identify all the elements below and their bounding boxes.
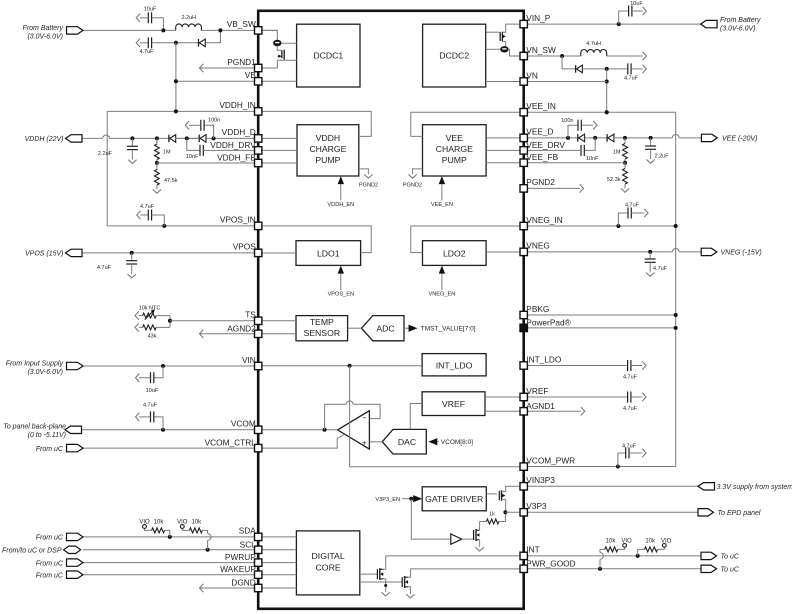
connector From uC (WAKEUP) [67, 571, 84, 578]
svg-text:TEMP: TEMP [310, 317, 334, 327]
svg-text:10nF: 10nF [586, 156, 599, 162]
svg-text:PGND2: PGND2 [403, 182, 422, 188]
svg-text:SDA: SDA [239, 526, 257, 536]
svg-text:2.2uH: 2.2uH [181, 15, 196, 21]
svg-text:From/to uC or DSP: From/to uC or DSP [2, 548, 62, 555]
svg-text:DIGITAL: DIGITAL [312, 551, 345, 561]
wire VN_SW node [524, 55, 581, 57]
svg-text:2.2uF: 2.2uF [98, 151, 113, 157]
svg-text:PWR_GOOD: PWR_GOOD [526, 558, 575, 568]
pin AGND2 [255, 330, 262, 337]
svg-text:10nF: 10nF [186, 154, 199, 160]
svg-text:PowerPad®: PowerPad® [526, 317, 570, 327]
svg-text:10uF: 10uF [146, 388, 159, 394]
svg-text:To panel back-plane: To panel back-plane [3, 424, 66, 431]
pin TS [255, 317, 262, 324]
wire VNEG to connector (hops rail) [524, 251, 673, 253]
wire VREF to DAC [410, 404, 422, 430]
pin VB_SW [255, 27, 262, 34]
block DAC [382, 429, 426, 454]
svg-text:VCOM_CTRL: VCOM_CTRL [205, 437, 257, 447]
wire VIN from input supply [83, 365, 258, 367]
svg-text:From Input Supply: From Input Supply [6, 361, 64, 368]
wire VNEG_IN internal loop to LDO2 [411, 226, 524, 253]
pin PWRUP [255, 559, 262, 566]
svg-text:INT_LDO: INT_LDO [436, 360, 473, 370]
wire VIN_P to From Battery (right) [524, 23, 701, 25]
svg-text:DCDC1: DCDC1 [313, 51, 343, 61]
wires host signals into DIGITAL CORE [258, 536, 296, 538]
capacitor 4.7uF (VCOM) [154, 417, 163, 430]
ground stub PGND2 (VEE charge pump) [413, 169, 423, 175]
wire VIN3P3 external [524, 485, 698, 487]
svg-text:100n: 100n [208, 118, 220, 124]
resistor 52.3k (VEE feedback) [624, 163, 626, 169]
wire VNEG to LDO2 [486, 251, 524, 253]
svg-text:VCOM_PWR: VCOM_PWR [526, 455, 575, 465]
svg-text:2.2uF: 2.2uF [655, 154, 670, 160]
wire VDDH_IN internal loop to VDDH charge pump [258, 111, 371, 136]
pullup resistor VIO 10k (SDA) [165, 530, 170, 537]
connector To panel back-plane [65, 426, 82, 433]
svg-text:AGND2: AGND2 [227, 323, 256, 333]
connector From Input Supply [67, 362, 84, 369]
svg-text:4.7uF: 4.7uF [625, 203, 640, 209]
wire PGND2 external [524, 187, 580, 189]
pin AGND1 [520, 408, 527, 415]
pin VN_SW [520, 52, 527, 59]
transistor Q4 (V3P3 pass FET) [486, 493, 497, 495]
pin VREF [520, 393, 527, 400]
pin VB [255, 78, 262, 85]
transistor Q2 (DCDC2 high-side FET) [506, 24, 524, 31]
capacitor 4.7uF (VPOS_IN) [137, 211, 141, 219]
svg-text:V3P3_EN: V3P3_EN [375, 497, 400, 503]
wires TS/AGND2 to TEMP SENSOR [258, 320, 296, 322]
wire SDA [83, 536, 258, 538]
pin VNEG_IN [520, 222, 527, 229]
inductor 4.7uH [581, 49, 607, 56]
svg-text:INT: INT [526, 545, 539, 555]
transistor Q1 (DCDC1 high-side FET) [258, 30, 277, 40]
svg-text:VNEG_EN: VNEG_EN [429, 292, 456, 298]
svg-text:4.7uF: 4.7uF [624, 76, 639, 82]
wire DAC to op-amp + input [369, 441, 382, 443]
svg-text:PUMP: PUMP [315, 155, 340, 165]
pin PWR_GOOD [520, 565, 527, 572]
svg-text:PBKG: PBKG [526, 304, 549, 314]
wire VNEG_IN [524, 225, 676, 227]
svg-text:10k: 10k [606, 539, 617, 545]
diode D5 (VEE) [577, 134, 579, 142]
capacitor 4.7uF (VPOS) [130, 251, 134, 255]
wire V3P3 [505, 511, 523, 513]
svg-text:VIN_P: VIN_P [526, 13, 550, 23]
wire AGND1 external arrow [524, 410, 581, 412]
svg-text:VNEG_IN: VNEG_IN [526, 215, 562, 225]
bus arrow VCOM[8:0] [428, 438, 437, 445]
resistor 47.5k (VDDH feedback) [156, 163, 158, 170]
right rail (VN net) [675, 112, 677, 466]
resistor 1M (VEE feedback) [623, 136, 627, 140]
capacitor 10nF (VEE_DRV) [593, 136, 597, 140]
svg-text:VN: VN [526, 70, 538, 80]
transistor Q6 (PWR_GOOD open-drain) [360, 581, 402, 583]
svg-text:PWRUP: PWRUP [225, 552, 256, 562]
pin VIN [255, 362, 262, 369]
svg-text:1M: 1M [163, 150, 171, 156]
capacitor 4.7uF (battery input) [136, 39, 140, 47]
svg-text:SENSOR: SENSOR [303, 328, 340, 338]
wire PBKG [524, 314, 676, 316]
svg-text:WAKEUP: WAKEUP [220, 564, 256, 574]
capacitor 10uF (VIN) [154, 366, 163, 378]
svg-text:(3.0V-6.0V): (3.0V-6.0V) [27, 34, 63, 41]
capacitor 4.7uF (VNEG) [648, 250, 652, 254]
diode D1 (VB_SW) [198, 39, 200, 47]
svg-text:VDDH_DRV: VDDH_DRV [210, 140, 256, 150]
enable arrow VPOS_EN [340, 272, 342, 291]
wire VEE_D output line [524, 137, 578, 139]
resistor 1M (VDDH feedback) [155, 136, 159, 140]
wire WAKEUP [83, 574, 258, 576]
svg-text:10k: 10k [645, 539, 656, 545]
svg-text:CHARGE: CHARGE [309, 144, 346, 154]
svg-text:DCDC2: DCDC2 [439, 51, 469, 61]
svg-text:100n: 100n [561, 118, 573, 124]
svg-text:1M: 1M [613, 150, 621, 156]
svg-text:To EPD panel: To EPD panel [718, 510, 761, 517]
wire VCOM_CTRL to op-amp [258, 434, 344, 448]
resistor 43k [135, 323, 139, 331]
svg-text:PGND2: PGND2 [359, 182, 378, 188]
wire VDDH_IN loop [107, 110, 258, 112]
svg-text:VPOS_IN: VPOS_IN [220, 215, 256, 225]
pullup resistor 10k VIO (INT) [638, 549, 645, 556]
wire TEMP SENSOR to ADC [348, 327, 362, 329]
wire VCOM_PWR to rail [524, 466, 676, 468]
wire DGND external arrow [200, 587, 259, 589]
inductor 2.2uH [176, 24, 202, 31]
wire PWRUP [83, 562, 258, 564]
svg-text:VEE_EN: VEE_EN [431, 202, 453, 208]
diode D6 (VEE) [606, 134, 608, 142]
connector To EPD panel [698, 509, 714, 516]
pin INT [520, 552, 527, 559]
svg-text:VIO: VIO [661, 539, 672, 545]
svg-text:VIO: VIO [621, 539, 632, 545]
capacitor 100n (VEE_D) [566, 136, 570, 140]
svg-text:4.7uF: 4.7uF [140, 204, 155, 210]
svg-text:VEE_FB: VEE_FB [526, 152, 558, 162]
feedback wire (VCOM to op-amp inverting input) [325, 404, 347, 430]
wire input rail down (node VB) [175, 43, 177, 112]
pin VEE_FB [520, 159, 527, 166]
wire INT_LDO output cap [524, 365, 628, 367]
wire VEE_FB [623, 161, 627, 165]
svg-text:10k NTC: 10k NTC [139, 306, 161, 312]
capacitor 4.7uF (VN rail) [605, 67, 609, 71]
svg-text:DGND: DGND [231, 578, 255, 588]
pin VEE_DRV [520, 147, 527, 154]
wire PGND1 (external, to ground arrow) [199, 67, 258, 69]
wire VEE_IN to right rail [524, 111, 676, 113]
pin PowerPad (thermal pad) [520, 324, 527, 331]
svg-text:VEE_D: VEE_D [526, 127, 553, 137]
svg-text:VNEG: VNEG [526, 241, 550, 251]
enable arrow VEE_EN [441, 182, 443, 201]
transistor Q3 (V3P3 pulldown) [462, 538, 474, 540]
wire TS [169, 316, 171, 328]
svg-text:VEE: VEE [446, 133, 464, 143]
svg-text:DAC: DAC [398, 437, 416, 447]
wire VDDH_FB [155, 161, 159, 165]
svg-text:LDO2: LDO2 [443, 248, 466, 258]
wires VEE_D/DRV/FB to charge pump [486, 137, 524, 139]
block LDO2 [423, 241, 487, 266]
op-amp U2 VCOM amplifier [338, 411, 370, 449]
capacitor 100n (VDDH_D) [212, 136, 216, 140]
svg-text:VEE_IN: VEE_IN [526, 101, 556, 111]
svg-text:VNEG (-15V): VNEG (-15V) [721, 250, 762, 257]
wire VIN rail down to VCOM_PWR [349, 366, 351, 467]
diode D2 (VN_SW) [562, 56, 576, 69]
svg-text:SCL: SCL [240, 539, 257, 549]
svg-text:(0 to -5.11V): (0 to -5.11V) [28, 432, 66, 439]
wire V3P3 external [524, 511, 698, 513]
block ADC [362, 316, 405, 341]
svg-text:VIN3P3: VIN3P3 [526, 475, 555, 485]
svg-text:VDDH_FB: VDDH_FB [217, 152, 256, 162]
svg-text:From uC: From uC [36, 446, 64, 453]
wire diode to VB_SW node [205, 30, 220, 42]
svg-text:47.5k: 47.5k [164, 178, 178, 184]
svg-text:TS: TS [245, 310, 256, 320]
pin VDDH_DRV [255, 147, 262, 154]
pin PGND2 [520, 185, 527, 192]
wire VCOM_PWR internal [350, 466, 524, 468]
wire VB [176, 80, 258, 82]
wire VPOS output [82, 252, 258, 254]
block DCDC2 [423, 24, 486, 87]
svg-text:4.7uF: 4.7uF [622, 444, 637, 450]
connector To uC (PWR_GOOD) [701, 565, 717, 572]
wire PWR_GOOD internal [410, 568, 523, 570]
svg-text:10uF: 10uF [630, 1, 643, 7]
pin VPOS_IN [255, 222, 262, 229]
svg-text:ADC: ADC [376, 323, 394, 333]
pin VNEG [520, 248, 527, 255]
svg-text:PGND2: PGND2 [526, 177, 555, 187]
wire VPOS to LDO1 [258, 252, 296, 254]
svg-text:VDDH_EN: VDDH_EN [327, 202, 354, 208]
svg-text:VEE_DRV: VEE_DRV [526, 140, 565, 150]
svg-text:AGND1: AGND1 [526, 401, 555, 411]
wire VCOM to panel [81, 429, 258, 431]
svg-text:VDDH (22V): VDDH (22V) [25, 136, 64, 143]
svg-text:From uC: From uC [36, 535, 64, 542]
pin SCL [255, 546, 262, 553]
capacitor 4.7uF (VCOM_PWR) [618, 453, 626, 467]
wire VIN to INT_LDO [258, 365, 422, 367]
svg-text:VCOM: VCOM [231, 419, 256, 429]
wire VDDH output line [82, 137, 103, 139]
connector From uC (VCOM_CTRL) [67, 444, 84, 451]
block TEMP SENSOR [296, 316, 348, 341]
svg-text:43k: 43k [148, 334, 157, 340]
svg-text:PGND1: PGND1 [227, 57, 256, 67]
capacitor 2.2uF (VDDH) [130, 136, 134, 140]
resistor 1k [480, 521, 487, 523]
svg-text:CORE: CORE [316, 563, 341, 573]
pin SDA [255, 533, 262, 540]
svg-text:VPOS: VPOS [233, 242, 257, 252]
pin PGND1 [255, 64, 262, 71]
connector 3.3V supply from system [698, 483, 715, 490]
pin WAKEUP [255, 571, 262, 578]
block VREF [422, 392, 485, 416]
svg-text:52.3k: 52.3k [607, 177, 621, 183]
enable arrow VNEG_EN [441, 272, 443, 291]
block VDDH CHARGE PUMP [297, 125, 359, 176]
block INT_LDO [422, 354, 486, 376]
pin DGND [255, 584, 262, 591]
wires VREF and AGND1 to VREF block [485, 396, 524, 398]
capacitor 2.2uF (VEE) [649, 136, 653, 140]
svg-text:4.7uF: 4.7uF [143, 403, 158, 409]
svg-text:VB: VB [245, 70, 257, 80]
pin VCOM_CTRL [255, 444, 262, 451]
svg-text:VPOS_EN: VPOS_EN [328, 292, 354, 298]
wire VCOM_CTRL [83, 447, 258, 449]
capacitor 4.7uF (INT_LDO) [627, 360, 629, 371]
pin VIN3P3 [520, 483, 527, 490]
diode D3 (VDDH) [168, 135, 170, 143]
pin VN [520, 78, 527, 85]
svg-text:4.7uF: 4.7uF [623, 375, 638, 381]
svg-text:LDO1: LDO1 [317, 248, 340, 258]
svg-text:10k: 10k [191, 520, 202, 526]
wire VPOS_IN internal loop to LDO1 [258, 226, 371, 253]
svg-text:10k: 10k [154, 520, 165, 526]
wire From Battery to VB_SW [83, 29, 176, 31]
svg-text:4.7uH: 4.7uH [586, 41, 601, 47]
svg-text:From uC: From uC [36, 573, 64, 580]
svg-text:1k: 1k [489, 512, 495, 518]
pin VEE_D [520, 134, 527, 141]
svg-text:PUMP: PUMP [442, 155, 467, 165]
wire PWR_GOOD external [524, 568, 701, 570]
pin PBKG [520, 311, 527, 318]
svg-text:−: − [362, 414, 367, 423]
svg-text:4.7uF: 4.7uF [623, 406, 638, 412]
block VEE CHARGE PUMP [423, 125, 487, 176]
capacitor 10uF (battery input) [162, 18, 164, 31]
capacitor 10nF (VDDH_DRV) [185, 136, 189, 140]
pin VDDH_IN [255, 108, 262, 115]
pin VCOM [255, 426, 262, 433]
svg-text:VEE (-20V): VEE (-20V) [722, 136, 757, 143]
pin V3P3 [520, 509, 527, 516]
pin INT_LDO [520, 362, 527, 369]
wire INT internal [386, 555, 524, 557]
wire VB into DCDC1 [258, 80, 296, 82]
connector From/to uC or DSP [64, 546, 81, 553]
wire VEE_IN internal loop to VEE charge pump [411, 112, 524, 136]
svg-text:CHARGE: CHARGE [436, 144, 473, 154]
wire PowerPad [524, 327, 676, 329]
svg-text:VN_SW: VN_SW [526, 45, 556, 55]
capacitor 4.7uF (VREF) [524, 396, 628, 398]
ground stub PGND2 (VDDH charge pump) [359, 169, 369, 175]
IC boundary U1 (PMIC) [258, 11, 524, 609]
svg-text:VCOM[8:0]: VCOM[8:0] [441, 439, 473, 446]
wire VN rail down to VEE_IN [606, 69, 608, 112]
svg-text:(3.0V-6.0V): (3.0V-6.0V) [27, 369, 63, 376]
pin VPOS [255, 249, 262, 256]
wire VIN3P3 to pass FET [506, 486, 524, 490]
svg-text:VDDH_D: VDDH_D [222, 127, 256, 137]
svg-text:VPOS (15V): VPOS (15V) [25, 251, 64, 258]
connector From uC (PWRUP) [67, 559, 84, 566]
wire AGND2 external [200, 333, 259, 335]
svg-text:VIO: VIO [139, 520, 150, 526]
svg-text:GATE DRIVER: GATE DRIVER [425, 494, 483, 504]
connector From Battery (right) [701, 20, 718, 27]
svg-text:INT_LDO: INT_LDO [526, 354, 562, 364]
capacitor 10uF (VIN_P) [617, 22, 621, 26]
thermistor 10k NTC [135, 311, 139, 319]
svg-text:From Battery: From Battery [720, 17, 761, 24]
svg-text:V3P3: V3P3 [526, 501, 547, 511]
pin VCOM_PWR [520, 463, 527, 470]
connector To uC (INT) [701, 552, 717, 559]
svg-text:3.3V supply from system: 3.3V supply from system [717, 484, 792, 491]
block LDO1 [296, 241, 361, 266]
svg-text:(3.0V-6.0V): (3.0V-6.0V) [720, 26, 756, 33]
enable arrow VDDH_EN [340, 182, 342, 201]
wires VDDH_D/DRV/FB to charge pump [258, 137, 297, 139]
connector VNEG (-15V) [701, 248, 717, 255]
svg-text:10uF: 10uF [144, 7, 157, 13]
svg-text:From Battery: From Battery [23, 25, 64, 32]
svg-text:4.7uF: 4.7uF [139, 49, 154, 55]
diode D4 (VDDH) [198, 135, 200, 143]
svg-text:From uC: From uC [36, 560, 64, 567]
connector VPOS (15V) [66, 249, 83, 256]
svg-text:VREF: VREF [442, 399, 465, 409]
wire VEE to connector (hops rail) [672, 134, 679, 137]
pin VDDH_FB [255, 159, 262, 166]
svg-text:VB_SW: VB_SW [227, 19, 256, 29]
wire SCL [83, 549, 258, 551]
svg-text:+: + [362, 439, 367, 448]
pin VDDH_D [255, 135, 262, 142]
connector From Battery (left) [67, 27, 84, 34]
pullup resistor 10k VIO (PWR_GOOD) [599, 559, 601, 569]
bus arrow TMST_VALUE[7:0] [404, 327, 409, 329]
connector From uC (SDA) [67, 533, 84, 540]
svg-text:VIO: VIO [177, 520, 188, 526]
svg-text:To uC: To uC [721, 567, 740, 574]
connector VEE (-20V) [701, 134, 717, 141]
svg-text:TMST_VALUE[7:0]: TMST_VALUE[7:0] [421, 326, 476, 333]
block DCDC1 [297, 24, 360, 87]
block DIGITAL CORE [296, 531, 359, 595]
block GATE DRIVER [422, 487, 486, 511]
wire INT external [524, 555, 701, 557]
pullup resistor VIO 10k (SCL) [207, 540, 209, 550]
